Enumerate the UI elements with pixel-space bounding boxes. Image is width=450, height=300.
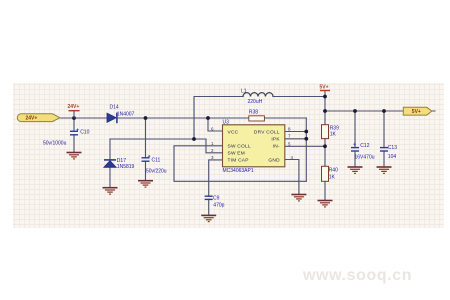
svg-text:C13: C13 [388,145,397,151]
ground (C12) [348,167,363,173]
svg-text:TIM CAP: TIM CAP [228,158,249,164]
wire: C12 branch [354,111,356,167]
capacitor C11 [142,155,167,175]
svg-text:MC34063AP1: MC34063AP1 [223,168,254,174]
svg-text:5V+: 5V+ [412,109,421,115]
svg-text:R38: R38 [249,109,258,115]
svg-text:DRV COLL: DRV COLL [254,130,280,136]
capacitor C12 [351,143,375,161]
power port 24V+ [68,104,80,118]
svg-text:1N4007: 1N4007 [117,111,135,117]
resistor R38 [249,109,265,121]
svg-text:50v/220u: 50v/220u [146,169,167,175]
connector P input 24V+ [17,114,60,122]
ground (IC pin 4) [291,195,306,201]
op IC U3 MC34063AP1 [211,120,294,175]
svg-text:www.sooq.cn: www.sooq.cn [302,267,412,284]
wire: TIM CAP pin 3 to C9 [209,160,223,215]
svg-text:GND: GND [268,158,280,164]
svg-text:50v/1000u: 50v/1000u [43,141,67,147]
inductor L1 [243,93,273,97]
wire: pin 7 stub [285,138,307,140]
svg-text:16V470u: 16V470u [355,155,375,161]
inductor L1 labels [241,88,263,105]
wire: L1 branch left vertical [194,97,243,140]
wire: VCC pin 6 drop [208,118,223,131]
diode D17 zener [104,158,135,170]
svg-text:SW EM: SW EM [228,151,246,157]
ground (C13) [377,167,392,173]
svg-text:R40: R40 [329,167,338,173]
wire: C10 branch [73,118,75,152]
svg-text:1N5819: 1N5819 [117,164,135,170]
svg-text:L1: L1 [241,88,247,94]
wire: 5V+ vertical rail [324,91,326,201]
svg-text:IPK: IPK [271,137,280,143]
wire: C11 branch [145,118,147,181]
ground (C9) [201,215,216,221]
wire: main 24V input rail [60,117,306,119]
svg-text:C11: C11 [152,157,161,163]
schematic canvas background [13,83,444,228]
wire: L1 out to 5V node [273,96,325,98]
wire: GND pin 4 drop [285,160,299,195]
svg-text:24V+: 24V+ [68,104,80,110]
ground (D17) [103,188,118,194]
svg-text:VCC: VCC [228,130,239,136]
svg-text:C9: C9 [213,196,220,202]
connector P output 5V+ [403,107,432,115]
svg-text:D14: D14 [110,104,119,110]
ground (R40) [318,201,333,207]
power port 5V+ [320,84,331,90]
svg-text:1K: 1K [329,175,336,181]
wire: D17 vertical [109,139,111,188]
resistor R40 [322,166,339,181]
svg-text:1K: 1K [330,131,337,137]
wire: bottom loop to pin 1 [174,146,306,182]
capacitor C9 [205,196,225,209]
capacitor C10 [43,129,90,147]
wire: output rail to connector [325,110,435,112]
junction dots [72,95,386,149]
svg-text:104: 104 [388,154,397,160]
diode D14 [107,104,135,123]
svg-text:220uH: 220uH [248,99,263,105]
svg-text:IN-: IN- [273,144,280,150]
svg-text:C10: C10 [80,130,89,136]
svg-text:SW COLL: SW COLL [228,144,251,150]
ground (C10) [67,153,82,159]
wire: pin 5 feedback [285,145,325,147]
svg-text:24V+: 24V+ [26,116,38,122]
wire: C13 branch [383,111,385,167]
ground (C11) [138,181,153,187]
svg-text:C12: C12 [360,143,369,149]
svg-text:470p: 470p [213,202,224,208]
wire: switch node D17 to pin 2 [110,139,223,153]
wire: pin 8 stub [285,131,307,133]
wire: vertical from R38 right down to pins 8,7 and bottom loop [305,118,307,181]
svg-text:U3: U3 [223,120,230,126]
svg-text:5V+: 5V+ [320,84,329,90]
capacitor C13 [380,145,397,160]
resistor R39 [322,125,340,139]
